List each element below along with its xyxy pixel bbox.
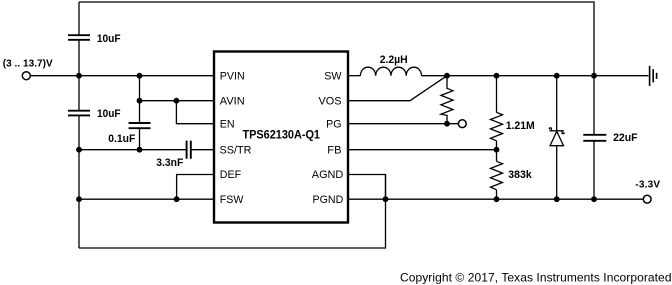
wire left rail between input line and C2: [78, 76, 80, 111]
svg-text:AVIN: AVIN: [220, 95, 245, 107]
wire PG line: [348, 123, 458, 125]
wire AGND pin jog down to PGND line: [348, 175, 386, 200]
capacitor C4 3.3nF: [187, 141, 191, 159]
svg-text:AGND: AGND: [312, 169, 344, 181]
svg-text:PG: PG: [326, 118, 341, 130]
wire left rail between C1 and input line: [78, 40, 80, 76]
node junction FB / divider: [494, 147, 500, 153]
svg-text:3.3nF: 3.3nF: [156, 157, 183, 169]
wire FSW line: [79, 198, 214, 200]
node junction input line / x139 branch: [137, 73, 143, 79]
wire SS/TR line left of C4: [79, 149, 187, 151]
wire FB line: [348, 149, 497, 151]
svg-text:(3 .. 13.7)V: (3 .. 13.7)V: [3, 59, 53, 70]
node junction bottom rail / diode: [554, 196, 560, 202]
node junction top rail / divider: [494, 73, 500, 79]
wire branch x139 below C3 to SS/TR line: [139, 128, 141, 150]
wire C5 branch top (from top wire corner through rail): [593, 76, 595, 135]
node junction DEF / FSW line: [174, 196, 180, 202]
node junction x139 / SS-TR line: [137, 147, 143, 153]
resistor R2 383k: [491, 161, 503, 189]
svg-text:EN: EN: [220, 118, 235, 130]
wire C5 branch bottom: [593, 141, 595, 199]
svg-text:TPS62130A-Q1: TPS62130A-Q1: [243, 128, 321, 142]
wire left rail upper segment above C1: [78, 2, 80, 35]
svg-text:2.2µH: 2.2µH: [380, 54, 408, 66]
wire branch x139 from input line to C3: [139, 76, 141, 123]
wire VOS pin with diagonal to SW node: [348, 76, 447, 101]
ground symbol (right): [650, 66, 657, 86]
svg-text:PVIN: PVIN: [220, 70, 245, 82]
node junction AVIN / EN drop: [174, 98, 180, 104]
wire left rail below C2 down to bottom loop: [78, 115, 80, 248]
terminal PG output: [458, 120, 466, 128]
capacitor C1 10uF (input to GND): [68, 35, 90, 40]
node junction bottom rail / divider: [494, 196, 500, 202]
node junction left rail / input line: [76, 73, 82, 79]
wire input line VIN to PVIN: [31, 75, 215, 77]
wire diode branch top: [556, 76, 558, 131]
svg-text:FB: FB: [327, 144, 341, 156]
capacitor C2 10uF: [68, 111, 90, 116]
svg-text:Copyright © 2017, Texas Instru: Copyright © 2017, Texas Instruments Inco…: [400, 270, 672, 284]
svg-text:VOS: VOS: [319, 95, 342, 107]
wire AVIN line: [140, 100, 215, 102]
diode D1 zener cathode bar with curls: [549, 130, 564, 132]
svg-text:1.21M: 1.21M: [506, 120, 535, 132]
wire diode branch bottom: [556, 146, 558, 200]
wire SW pin to inductor: [348, 75, 360, 77]
node junction SW output node: [444, 73, 450, 79]
wire bottom return loop: [79, 175, 386, 249]
node junction top rail / diode: [554, 73, 560, 79]
node junction bottom rail / C5: [591, 196, 597, 202]
wire top ground return (79,2)-(594,2)-(594,76): [79, 2, 594, 76]
terminal VIN input: [22, 72, 30, 80]
node junction left rail / FSW line: [76, 196, 82, 202]
node junction bottom rail / AGND drop and bottom loop: [383, 196, 389, 202]
inductor L1 2.2uH: [360, 67, 421, 76]
diode D1 triangle: [550, 131, 564, 145]
IC U1 TPS62130A-Q1 body: [214, 52, 348, 223]
node junction left rail / SS-TR line: [76, 147, 82, 153]
svg-text:SW: SW: [324, 70, 342, 82]
wire divider middle segment: [496, 141, 498, 162]
node junction PG / pull-up: [444, 121, 450, 127]
wire output GND rail (top): [447, 75, 648, 77]
wire EN jog down and into EN pin: [176, 101, 214, 124]
svg-text:PGND: PGND: [313, 194, 344, 206]
wire DEF pin jog down to FSW line: [177, 175, 214, 200]
svg-text:SS/TR: SS/TR: [220, 144, 252, 156]
wire SS/TR line right of C4 into pin: [191, 149, 214, 151]
svg-text:FSW: FSW: [220, 194, 244, 206]
capacitor C5 22uF: [583, 135, 606, 141]
svg-text:0.1uF: 0.1uF: [108, 133, 135, 145]
node junction top rail / C5 and top wire: [591, 73, 597, 79]
wire inductor to SW node: [422, 75, 448, 77]
svg-text:10uF: 10uF: [97, 108, 121, 120]
svg-text:-3.3V: -3.3V: [635, 180, 660, 191]
svg-text:22uF: 22uF: [613, 132, 638, 144]
capacitor C3 0.1uF: [129, 123, 151, 128]
wire output rail (bottom, -3.3V): [348, 198, 643, 200]
svg-text:10uF: 10uF: [97, 33, 121, 45]
svg-text:DEF: DEF: [220, 169, 242, 181]
terminal -3.3V output: [643, 195, 651, 203]
resistor R3 PG pull-up: [441, 76, 453, 124]
svg-text:383k: 383k: [508, 169, 532, 181]
wire divider top segment: [496, 76, 498, 113]
node junction x139 / AVIN line: [137, 98, 143, 104]
wire divider bottom segment: [496, 190, 498, 200]
resistor R1 1.21M: [491, 112, 503, 140]
